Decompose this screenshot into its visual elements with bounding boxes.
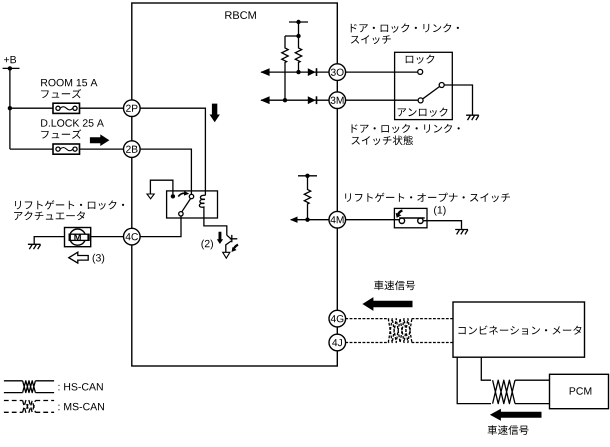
wire below switch (2)	[226, 241, 231, 253]
wire ROOM fuse to 2P	[80, 107, 124, 109]
wire to D.LOCK fuse	[10, 148, 53, 150]
wire MS-CAN to meter lower (dashed)	[412, 342, 454, 344]
wire D.LOCK fuse to 2B	[80, 148, 124, 150]
motor brush bars	[69, 234, 71, 241]
unlock contact	[418, 98, 423, 103]
open arrow left (3)	[69, 252, 88, 263]
label speed signal (top)	[374, 280, 415, 290]
ground (door lock switch)	[466, 115, 479, 120]
supply bar dot 4M	[305, 174, 309, 178]
label lock	[406, 55, 435, 64]
wire 4M internal	[291, 219, 330, 221]
relay fixed contact (closed)	[171, 194, 175, 198]
node dot on 3M line	[283, 98, 287, 102]
connector pin 4M	[329, 211, 346, 228]
+B junction dot	[8, 66, 12, 70]
wire resistor jog	[285, 35, 299, 37]
ground (opener switch)	[455, 230, 468, 235]
ground (actuator)	[28, 244, 41, 249]
relay bottom contact	[179, 212, 183, 216]
wire 3O internal	[261, 71, 329, 73]
label door-lock-link-switch-state line1	[352, 124, 460, 133]
wire HS-CAN to PCM upper	[515, 379, 550, 381]
opener switch bar	[399, 217, 425, 219]
node dot on 3O line	[296, 70, 300, 74]
wire 4M to opener switch	[345, 219, 399, 221]
legend HS-CAN label	[58, 383, 102, 390]
arrow down annotation at 2P	[210, 104, 220, 123]
label liftgate lock actuator line2	[14, 211, 85, 220]
switch lever (2)	[227, 235, 232, 239]
wire motor to 4C	[91, 236, 124, 238]
wire MS-CAN to meter upper (dashed)	[412, 318, 454, 320]
label door-lock-link-switch line1	[351, 23, 459, 32]
resistor R (4M)	[304, 176, 310, 220]
label (3)	[93, 254, 105, 264]
twisted pair MS-CAN	[388, 319, 412, 343]
wire 3O to lock contact	[345, 71, 417, 73]
+B supply bar	[3, 67, 20, 69]
wire common to ground	[444, 85, 472, 115]
wire 4G MS-CAN (dashed)	[345, 318, 389, 320]
label fuse 2 (katakana)	[41, 129, 81, 138]
open arrowhead below (2)	[223, 252, 230, 258]
+B label	[4, 56, 16, 63]
wire HS-CAN to PCM lower	[515, 403, 550, 405]
switch contact cross (2)	[230, 235, 238, 242]
fuse ROOM 15A element	[60, 107, 73, 110]
fuse D.LOCK 25A terminals	[56, 147, 77, 151]
label PCM	[570, 387, 592, 394]
connector pin 3M	[329, 92, 346, 109]
legend MS-CAN label	[58, 403, 103, 410]
label (1)	[434, 206, 446, 216]
connector pin 4J	[329, 334, 346, 351]
internal supply bar (3O/3M)	[289, 21, 308, 23]
wire 4J MS-CAN (dashed)	[345, 342, 389, 344]
RBCM module box	[132, 3, 337, 366]
relay coil	[199, 195, 205, 209]
PCM box	[550, 374, 609, 408]
arrow current direction right	[90, 134, 110, 146]
arrow left on 3O line	[260, 68, 269, 76]
connector pin 4C	[124, 228, 141, 245]
label D.LOCK 25 A	[41, 119, 104, 126]
relay actuation arrow	[178, 193, 185, 196]
resistor R-right (to 3O)	[295, 36, 301, 72]
opener press arrow	[398, 211, 402, 215]
fuse D.LOCK 25A body	[53, 144, 80, 154]
opener contact right	[418, 218, 423, 223]
connector pin 2P	[124, 100, 141, 117]
motor M label	[74, 234, 81, 240]
label unlock	[398, 108, 448, 117]
node fuse branch dot	[8, 106, 12, 110]
wire meter to HS-CAN right	[481, 357, 491, 380]
connector pin 2B	[124, 141, 141, 158]
curved arrow at (2)	[234, 245, 238, 249]
wire relay to 4C	[140, 216, 181, 237]
relay lever	[182, 199, 191, 212]
diode on 3O line	[308, 68, 316, 76]
motor box	[65, 228, 91, 247]
open arrowhead (to door lock circuit)	[147, 194, 154, 199]
lock contact	[418, 69, 423, 74]
legend MS-CAN twist	[23, 401, 36, 413]
node dot on 4M line	[305, 218, 309, 222]
motor circle	[70, 229, 86, 245]
opener switch box	[394, 208, 427, 227]
wire 2B to relay contact	[140, 149, 192, 194]
wire coil to transistor (2)	[204, 210, 227, 236]
label (2)	[201, 240, 213, 250]
arrow speed signal (bottom)	[490, 409, 542, 421]
wire motor to ground	[34, 237, 64, 244]
motor brush band	[69, 234, 89, 240]
fuse ROOM 15A body	[53, 103, 80, 113]
arrow speed signal (top)	[362, 297, 412, 311]
diode on 3M line	[308, 96, 316, 104]
wire meter to HS-CAN left	[457, 357, 491, 403]
common contact	[439, 83, 444, 88]
relay box	[167, 191, 218, 218]
switch lever	[423, 87, 440, 99]
label fuse (katakana)	[41, 89, 81, 98]
wire bar down	[298, 22, 300, 36]
resistor R-left (to 3M)	[282, 36, 288, 100]
label liftgate lock actuator line1	[15, 200, 124, 210]
wire 3M internal	[261, 99, 329, 101]
legend HS-CAN twist	[23, 381, 36, 393]
label door-lock-link-switch line2	[351, 35, 391, 44]
arrow left on 3M line	[260, 96, 269, 104]
junction dot resistors	[296, 34, 300, 38]
fuse ROOM 15A terminals	[56, 106, 77, 110]
wire 2P to relay coil	[140, 108, 206, 195]
label ROOM 15 A	[41, 79, 97, 86]
wire opener to ground	[423, 221, 461, 229]
twisted pair HS-CAN	[493, 380, 515, 403]
fuse D.LOCK 25A element	[60, 148, 73, 151]
door lock link switch box	[395, 52, 453, 119]
wire +B vertical	[9, 68, 11, 149]
label RBCM	[225, 11, 256, 19]
combination meter box	[453, 302, 585, 357]
legend HS-CAN lines	[4, 381, 54, 393]
connector pin 4G	[329, 310, 346, 327]
supply bar dot	[296, 20, 300, 24]
arrow down small (2)	[217, 232, 223, 244]
legend MS-CAN lines	[4, 401, 54, 413]
internal supply bar (4M)	[298, 175, 317, 177]
label door-lock-link-switch-state line2	[351, 135, 413, 145]
wire 3M to unlock contact	[345, 99, 418, 101]
opener contact left	[399, 218, 404, 223]
wire to ROOM fuse	[10, 107, 53, 109]
relay moving contact	[189, 194, 193, 198]
label liftgate opener switch	[345, 193, 510, 203]
label speed signal (bottom)	[488, 425, 529, 435]
connector pin 3O	[329, 64, 346, 81]
arrow left on 4M line	[290, 217, 298, 223]
wire relay contact up-left	[150, 180, 173, 194]
label combination meter	[458, 326, 581, 335]
